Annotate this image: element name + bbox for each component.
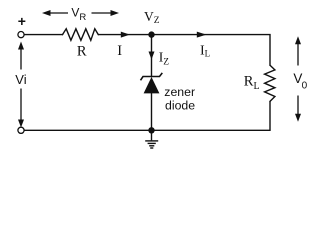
Vi arrow down: [18, 89, 24, 128]
terminal - (bottom left): [18, 127, 24, 133]
wire bottom rail: [24, 129, 270, 131]
wire top rail left (terminal to R): [24, 34, 62, 36]
V_O arrow down: [295, 96, 301, 122]
current arrow I_L (on top rail): [197, 32, 207, 38]
wire zener branch upper (node to zener): [151, 35, 153, 77]
wire right rail lower (R_L to bottom rail): [269, 101, 271, 130]
current arrow I_Z (on zener branch): [149, 52, 155, 60]
wire zener branch lower (zener to ground node): [151, 93, 153, 130]
terminal + (top left): [18, 31, 24, 37]
zener diode D (cathode bar with bent ends, filled triangle): [141, 73, 163, 94]
resistor R: [63, 29, 99, 41]
V_R arrow left: [42, 10, 68, 16]
V_R arrow right: [92, 10, 120, 16]
svg-text:+: +: [18, 13, 26, 29]
ground: [145, 130, 158, 148]
svg-text:diode: diode: [165, 99, 195, 113]
node V_Z junction dot: [148, 31, 154, 37]
svg-text:I: I: [117, 43, 122, 59]
resistor R_L: [265, 65, 275, 101]
svg-text:Vi: Vi: [15, 72, 26, 87]
svg-text:zener: zener: [164, 85, 195, 99]
wire top rail node to right corner and drop to R_L: [152, 35, 271, 66]
wire top rail R to node V_Z: [98, 34, 151, 36]
V_O arrow up: [295, 36, 301, 65]
Vi arrow up: [18, 42, 24, 70]
svg-text:R: R: [77, 44, 87, 60]
junction dot (ground node): [148, 127, 154, 133]
current arrow I (on top rail): [121, 32, 130, 38]
